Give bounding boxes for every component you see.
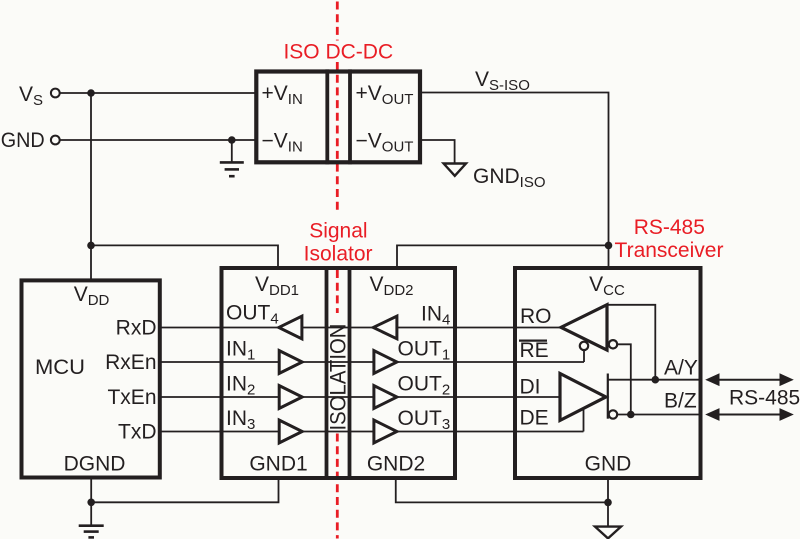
label +VIN pin	[262, 82, 303, 108]
label TxD pin	[118, 420, 157, 443]
svg-text:DGND: DGND	[64, 453, 126, 476]
label VDD1 pin	[255, 273, 299, 299]
wire VDD2 rail	[397, 245, 609, 268]
label OUT4 pin	[226, 302, 279, 328]
svg-text:RE: RE	[520, 339, 549, 362]
label RO pin	[520, 305, 552, 328]
driver output bar	[607, 374, 609, 419]
svg-text:RO: RO	[520, 305, 552, 328]
RS-485 bus line A/Y double arrow	[705, 373, 794, 386]
label +VOUT pin	[356, 82, 414, 108]
wire OUT1 to RE pin	[397, 350, 584, 362]
isolation barrier red dashed line (bottom segment)	[336, 434, 339, 539]
buffer OUT4 (left pointing)	[279, 316, 302, 339]
junction isolated ground	[604, 499, 612, 507]
wire GND to -VIN	[60, 139, 257, 141]
ground symbol GND_ISO triangle	[444, 164, 466, 176]
wire driver output Z to B/Z pin	[617, 414, 700, 416]
DC-DC internal barrier line right	[348, 69, 352, 164]
svg-text:TxEn: TxEn	[107, 386, 156, 409]
wire TxD row MCU to IN3 buffer	[160, 431, 279, 433]
label VCC pin	[589, 273, 625, 299]
svg-text:DI: DI	[520, 376, 541, 399]
bubble receiver input B	[609, 340, 617, 348]
title ISO DC-DC	[283, 40, 393, 63]
label GND2 pin	[367, 453, 425, 476]
RS-485 transceiver box	[515, 268, 701, 478]
label IN4 pin	[421, 302, 450, 328]
bubble driver output Z	[609, 410, 617, 418]
wire OUT2 to DI driver input	[397, 396, 560, 398]
DC-DC internal barrier line left	[325, 69, 329, 164]
title Signal Isolator line 1	[309, 219, 367, 242]
ground symbol at -VIN	[220, 162, 244, 176]
wire row2 across isolation barrier	[302, 361, 374, 363]
label RxD pin	[116, 316, 157, 339]
RS-485 bus line B/Z double arrow	[705, 408, 794, 421]
svg-text:GND2: GND2	[367, 453, 425, 476]
wire VDD1 branch	[91, 245, 278, 268]
junction VS/VDD	[87, 89, 95, 97]
svg-text:Isolator: Isolator	[304, 243, 373, 266]
wire GND2 to isolated ground	[396, 478, 608, 502]
wire row1 across isolation barrier	[302, 327, 374, 329]
wire stub to input ground	[231, 140, 233, 162]
wire receiver input A	[607, 305, 655, 380]
buffer IN4 (left pointing)	[373, 316, 397, 339]
label DGND pin	[64, 453, 126, 476]
MCU box	[22, 280, 160, 477]
label DE pin	[520, 407, 549, 430]
label -VIN pin	[262, 129, 303, 155]
label VDD2 pin	[369, 273, 413, 299]
label A/Y pin	[664, 357, 698, 380]
receiver amplifier U-RX	[561, 305, 607, 350]
buffer IN2 (right pointing)	[279, 386, 302, 409]
wire +VOUT to VS-ISO rail	[420, 93, 609, 246]
label GND	[1, 129, 45, 152]
label OUT1 pin	[398, 338, 451, 364]
label VS	[19, 83, 43, 109]
label DI pin	[520, 376, 541, 399]
svg-text:RS-485: RS-485	[729, 387, 800, 410]
svg-text:Signal: Signal	[309, 219, 367, 242]
label RxEn pin	[105, 351, 156, 374]
ISO DC-DC converter box	[256, 72, 420, 163]
wire RxEn row MCU to IN1 buffer	[160, 361, 279, 363]
ground symbol isolated ground triangle	[595, 527, 621, 539]
isolation barrier red dashed line (top segment)	[336, 2, 339, 41]
label net VS-ISO	[475, 68, 530, 94]
svg-text:A/Y: A/Y	[664, 357, 698, 380]
wire RxD row MCU to OUT4 buffer	[160, 327, 279, 329]
wire driver output Y to A/Y pin	[608, 379, 701, 381]
label ISOLATION vertical	[326, 324, 351, 431]
svg-text:Transceiver: Transceiver	[615, 239, 724, 262]
svg-text:RS-485: RS-485	[634, 216, 705, 239]
wire VCC pin	[608, 245, 610, 268]
buffer IN1 (right pointing)	[279, 351, 302, 374]
svg-text:DE: DE	[520, 407, 549, 430]
svg-text:GND: GND	[1, 129, 45, 152]
label IN3 pin	[226, 407, 255, 433]
label OUT3 pin	[398, 407, 451, 433]
wire TxEn row MCU to IN2 buffer	[160, 396, 279, 398]
isolator internal barrier line left	[325, 266, 329, 480]
wire IN4 to RO receiver tip	[397, 327, 561, 329]
isolation barrier red dashed line (through DC-DC)	[336, 62, 339, 212]
svg-text:RxD: RxD	[116, 316, 157, 339]
wire transceiver GND pin to isolated ground	[607, 478, 609, 526]
wire row4 across isolation barrier	[302, 431, 374, 433]
junction GND/-VIN	[228, 136, 236, 144]
wire DGND to GND1	[91, 478, 278, 502]
terminal VS	[51, 89, 60, 98]
label TxEn pin	[107, 386, 156, 409]
label IN2 pin	[226, 373, 255, 399]
title RS-485 Transceiver line 2	[615, 239, 724, 262]
wire VS to +VIN	[60, 92, 257, 94]
isolation barrier red dashed line (below Signal Isolator label)	[336, 270, 339, 313]
label GND1 pin	[249, 453, 307, 476]
signal isolator box	[222, 268, 456, 478]
label VDD pin	[74, 283, 110, 309]
label RS-485 bus	[729, 387, 800, 410]
svg-text:ISO DC-DC: ISO DC-DC	[283, 40, 393, 63]
label IN1 pin	[226, 338, 255, 364]
ground symbol DGND	[79, 526, 104, 538]
junction VDD1 branch	[87, 242, 95, 250]
label net GND_ISO	[473, 165, 546, 191]
junction DGND	[87, 499, 95, 507]
svg-text:TxD: TxD	[118, 420, 157, 443]
title RS-485 Transceiver line 1	[634, 216, 705, 239]
terminal GND	[51, 136, 60, 145]
bubble RE enable	[580, 342, 588, 350]
wire VDD rail down to MCU	[90, 93, 92, 280]
svg-text:RxEn: RxEn	[105, 351, 156, 374]
buffer OUT3 (right pointing)	[374, 420, 397, 443]
junction B/Z receiver input	[627, 411, 635, 419]
label -VOUT pin	[356, 129, 414, 155]
svg-text:MCU: MCU	[35, 356, 85, 379]
driver amplifier U-TX	[560, 374, 606, 421]
svg-text:GND1: GND1	[249, 453, 307, 476]
junction VS-ISO/VCC	[605, 242, 613, 250]
wire OUT3 to DE pin	[397, 409, 584, 432]
label OUT2 pin	[398, 373, 451, 399]
junction A/Y receiver input	[652, 376, 660, 384]
svg-text:B/Z: B/Z	[664, 390, 697, 413]
buffer IN3 (right pointing)	[279, 420, 302, 443]
label RE pin (active low)	[519, 339, 549, 362]
svg-text:ISOLATION: ISOLATION	[326, 324, 351, 431]
title Signal Isolator line 2	[304, 243, 373, 266]
wire receiver input B	[617, 344, 631, 414]
wire -VOUT to GND_ISO	[420, 140, 455, 163]
svg-text:GND: GND	[585, 453, 632, 476]
label GND pin transceiver	[585, 453, 632, 476]
isolator internal barrier line right	[348, 266, 352, 480]
wire row3 across isolation barrier	[302, 396, 374, 398]
label MCU	[35, 356, 85, 379]
label B/Z pin	[664, 390, 697, 413]
buffer OUT2 (right pointing)	[374, 386, 397, 409]
buffer OUT1 (right pointing)	[374, 351, 397, 374]
wire MCU ground stub	[90, 478, 92, 526]
